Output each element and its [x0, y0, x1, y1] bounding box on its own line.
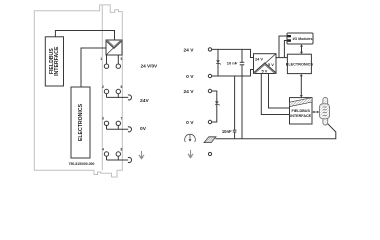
wire converter 5V output to electronics — [276, 57, 287, 59]
svg-text:FIELDBUS: FIELDBUS — [291, 109, 310, 113]
terminal 0V (field) — [208, 120, 211, 123]
suppressor diode (system supply) — [216, 49, 221, 76]
svg-text:24 V: 24 V — [183, 89, 194, 95]
svg-text:7: 7 — [121, 117, 123, 121]
I/O modules box — [287, 33, 313, 44]
svg-text:I/O Modules: I/O Modules — [293, 37, 313, 41]
wire connector shield to earth line — [216, 124, 336, 139]
wire 5V to I/O modules (left) — [279, 36, 288, 58]
capacitor 10nF (system supply) — [240, 49, 245, 76]
capacitor 10nF (earth coupling) — [233, 76, 237, 139]
svg-text:5 V: 5 V — [268, 62, 274, 67]
svg-text:8: 8 — [121, 147, 123, 151]
data arrow electronics - fieldbus interface — [300, 74, 303, 98]
bus contact (upper) — [288, 35, 292, 37]
wire: fieldbus interface to power supply box — [55, 31, 114, 41]
row 1 contacts 24V/0V — [104, 55, 120, 68]
svg-text:24 V: 24 V — [255, 56, 263, 61]
svg-text:3: 3 — [102, 117, 104, 121]
electronics box (left module) — [71, 87, 90, 158]
terminal 0V (system) — [208, 74, 211, 77]
row 2 contacts 24V — [104, 89, 131, 100]
wire 5V to I/O modules (right) — [284, 41, 287, 58]
data arrow I/O modules - electronics — [300, 44, 303, 54]
svg-text:5 V: 5 V — [262, 69, 268, 74]
terminal legend circle — [208, 152, 211, 155]
terminal 24V (system) — [208, 48, 211, 51]
din rail symbol — [204, 137, 216, 143]
wire converter 5V to fieldbus interface (lower) — [261, 74, 289, 115]
fieldbus interface box (left module) — [45, 37, 63, 86]
power supply symbol (left module) — [106, 40, 122, 55]
rail arrow legend — [188, 150, 193, 158]
row 4 contacts earth — [104, 152, 131, 163]
rail arrow (left) — [139, 151, 144, 159]
svg-text:10nF: 10nF — [222, 129, 232, 134]
svg-text:0V: 0V — [140, 126, 147, 132]
svg-text:24 V: 24 V — [183, 48, 194, 54]
fieldbus interface box (right) with isolation barrier — [290, 98, 313, 124]
svg-text:6: 6 — [121, 85, 123, 89]
clean earth symbol — [185, 134, 196, 142]
svg-text:24V: 24V — [140, 98, 149, 104]
electronics box (right) — [287, 54, 311, 73]
svg-text:24 V/0V: 24 V/0V — [141, 63, 159, 68]
svg-text:10 nF: 10 nF — [227, 61, 238, 66]
data arrow fieldbus interface - connector — [312, 111, 319, 114]
svg-text:INTERFACE: INTERFACE — [54, 46, 60, 76]
wire converter 5V to fieldbus interface (upper) — [269, 74, 290, 109]
svg-text:750-815/000-000: 750-815/000-000 — [69, 162, 95, 166]
fieldbus connector — [320, 98, 330, 126]
wire 0V rail to converter — [212, 70, 254, 77]
svg-text:0 V: 0 V — [186, 74, 194, 80]
svg-text:ELECTRONICS: ELECTRONICS — [286, 62, 314, 66]
suppressor diode (field supply) — [212, 91, 220, 122]
svg-text:2: 2 — [102, 85, 104, 89]
wire: electronics to power supply box — [81, 48, 106, 87]
svg-text:4: 4 — [102, 147, 104, 151]
module housing outline (coupler body) — [34, 5, 122, 177]
dc/dc converter 24V-5V — [254, 54, 277, 74]
row 3 contacts 0V — [104, 121, 131, 132]
svg-text:0 V: 0 V — [186, 120, 194, 126]
wire 0V to earth — [241, 76, 243, 139]
svg-text:5: 5 — [121, 57, 123, 61]
svg-text:INTERFACE: INTERFACE — [290, 114, 311, 118]
svg-text:ELECTRONICS: ELECTRONICS — [78, 103, 84, 141]
terminal 24V (field) — [208, 89, 211, 92]
svg-text:1: 1 — [100, 57, 102, 61]
bus contact (lower) — [288, 39, 292, 42]
wire 24V rail to converter — [212, 49, 254, 57]
